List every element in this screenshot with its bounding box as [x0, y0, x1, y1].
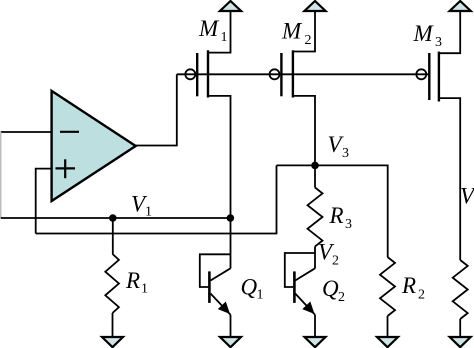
svg-text:Q: Q	[322, 276, 339, 301]
svg-text:R: R	[125, 268, 140, 293]
ground under R2	[377, 337, 398, 347]
wire: R1 to ground	[112, 313, 114, 338]
transistor Q1 emitter arrow	[218, 302, 230, 315]
transistor Q2 emitter arrow	[302, 302, 314, 315]
wire: Q2 emitter to ground	[314, 315, 316, 338]
wire: node V1 horizontal rail	[1, 217, 231, 219]
wire: op-amp minus input	[1, 131, 52, 133]
transistor M2 channel bar	[292, 50, 294, 97]
junction dot at V1 and M1 drain	[227, 214, 235, 222]
label V output	[460, 184, 474, 209]
svg-text:1: 1	[141, 281, 148, 296]
label Q1	[241, 275, 264, 303]
wire: op-amp plus input	[36, 169, 52, 234]
junction dot at V1 and R1	[109, 214, 117, 222]
resistor R2	[380, 257, 395, 316]
svg-text:M: M	[281, 19, 303, 44]
wire: gate bus to M1 M2 M3	[177, 73, 429, 75]
wire: M1 drain down to Q1 collector	[208, 96, 231, 269]
transistor Q1 emitter	[211, 294, 231, 315]
svg-text:Q: Q	[241, 275, 258, 300]
svg-text:2: 2	[332, 254, 339, 269]
svg-text:2: 2	[305, 33, 312, 48]
svg-text:R: R	[401, 273, 416, 298]
resistor R1	[105, 254, 119, 313]
svg-text:M: M	[198, 16, 220, 41]
svg-text:1: 1	[145, 205, 152, 220]
svg-text:3: 3	[342, 146, 349, 161]
svg-text:2: 2	[418, 288, 425, 303]
svg-text:1: 1	[257, 288, 264, 303]
label M3	[413, 21, 443, 50]
transistor M1 gate bubble	[185, 69, 195, 79]
wire: R3 to node V2	[314, 247, 316, 269]
transistor Q2 base bar	[293, 271, 296, 303]
svg-text:2: 2	[338, 290, 345, 305]
wire: output resistor to ground	[459, 319, 461, 338]
transistor Q1 collector	[211, 268, 231, 280]
ground under output resistor	[450, 337, 471, 347]
label M1	[198, 16, 228, 45]
wire: R2 to ground	[387, 316, 389, 338]
label Q2	[322, 276, 345, 305]
wire: V1 node to R1	[112, 218, 114, 254]
svg-text:3: 3	[435, 35, 442, 50]
wire: feedback from node V1 to minus input (gray)	[0, 132, 2, 218]
label R2	[401, 273, 425, 303]
wire: plus input to node V3	[36, 165, 277, 233]
transistor Q2 emitter	[295, 294, 315, 315]
resistor R3	[308, 188, 323, 247]
transistor M2 gate bubble	[270, 69, 280, 79]
op-amp plus sign	[56, 167, 76, 169]
ground under R1	[102, 337, 123, 347]
wire: node V3 horizontal rail to R2	[277, 165, 388, 257]
transistor M1 gate bar	[196, 53, 198, 96]
power VDD symbol at M2	[304, 1, 325, 11]
transistor M3 gate bubble	[416, 69, 426, 79]
wire: M2 drain down to node V3	[293, 96, 315, 165]
junction dot at V3 and M2 drain	[311, 162, 319, 170]
label V1	[131, 192, 152, 220]
wire: M3 drain down to output resistor	[439, 98, 460, 260]
svg-text:V: V	[460, 184, 474, 209]
transistor Q1 base bar	[208, 271, 211, 303]
power VDD symbol at M3	[450, 1, 471, 11]
ground under Q2	[305, 337, 326, 347]
transistor M3 channel bar	[438, 52, 440, 102]
power VDD symbol at M1	[220, 1, 241, 11]
resistor output branch	[453, 260, 468, 319]
wire: M1 source to VDD	[208, 11, 231, 53]
transistor Q2 diode connection (node V2)	[285, 253, 315, 287]
wire: V3 node to R3	[314, 165, 316, 187]
transistor M2 gate bar	[280, 53, 282, 96]
label M2	[281, 19, 312, 49]
wire: Q1 emitter to ground	[230, 315, 232, 338]
op-amp minus sign	[60, 131, 79, 133]
ground under Q1	[220, 337, 241, 347]
transistor Q2 collector	[295, 268, 315, 280]
transistor M3 gate bar	[428, 53, 430, 100]
transistor M1 channel bar	[207, 50, 209, 97]
wire: M2 source to VDD	[293, 11, 315, 52]
label V3	[328, 132, 350, 161]
label R3	[329, 203, 353, 232]
wire: M3 source to VDD	[439, 11, 460, 53]
svg-text:R: R	[329, 203, 344, 228]
svg-text:M: M	[413, 21, 435, 46]
op-amp U1	[52, 91, 136, 201]
wire: op-amp output	[136, 74, 177, 145]
svg-text:1: 1	[221, 30, 228, 45]
svg-text:3: 3	[345, 217, 352, 232]
transistor Q1 diode connection	[200, 254, 231, 287]
label V2	[318, 240, 339, 269]
label R1	[125, 268, 148, 297]
